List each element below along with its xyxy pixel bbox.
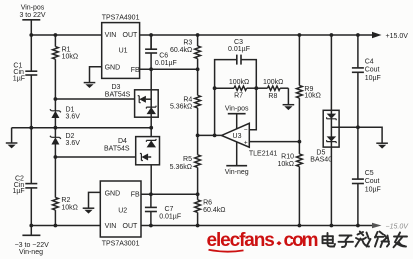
svg-text:R7: R7	[234, 92, 243, 99]
resistor R2	[53, 157, 78, 226]
diode D3 horizontal schottky	[138, 96, 152, 103]
svg-text:R1: R1	[62, 46, 71, 53]
watermark chinese 电子发烧友	[323, 232, 408, 248]
svg-text:5.36kΩ: 5.36kΩ	[170, 164, 192, 171]
wire U1 GND to ground	[90, 67, 102, 83]
node top rail junctions	[29, 33, 33, 37]
resistor R5	[170, 135, 201, 194]
svg-text:Cout: Cout	[365, 178, 380, 185]
node mid rail junctions	[29, 126, 33, 130]
svg-text:TPS7A3001: TPS7A3001	[102, 240, 140, 247]
svg-text:1µF: 1µF	[13, 188, 25, 195]
wire U1 FB to node	[140, 68, 198, 70]
svg-text:R2: R2	[61, 197, 70, 204]
svg-text:TLE2141: TLE2141	[249, 151, 278, 158]
node Vin-neg input bar	[15, 226, 50, 256]
svg-text:D4: D4	[118, 138, 127, 145]
wire noninverting input	[249, 141, 299, 143]
svg-text:elecfans: elecfans	[207, 230, 275, 251]
diode D4 horizontal schottky	[140, 154, 151, 161]
capacitor C2	[13, 128, 38, 226]
svg-text:GND: GND	[105, 65, 121, 72]
op-amp U1 regulator TPS7A4901	[102, 15, 140, 79]
svg-text:C3: C3	[234, 39, 243, 46]
capacitor C4	[352, 35, 381, 127]
svg-text:R8: R8	[268, 93, 277, 100]
svg-text:0.01µF: 0.01µF	[228, 46, 250, 53]
svg-text:D5: D5	[316, 150, 325, 157]
capacitor C5	[352, 127, 381, 225]
svg-text:D1: D1	[66, 107, 75, 114]
svg-text:VIN: VIN	[105, 223, 117, 230]
diode D4 vertical schottky	[146, 139, 156, 148]
node FB2 junctions	[149, 192, 153, 196]
svg-text:com: com	[284, 230, 318, 251]
op-amp U2 regulator TPS7A3001	[100, 181, 141, 247]
wire top rail VIN side	[31, 34, 101, 36]
svg-text:10kΩ: 10kΩ	[277, 161, 294, 168]
wire C1 branch	[30, 35, 32, 71]
resistor R6	[195, 194, 226, 225]
svg-text:−15.0V: −15.0V	[386, 223, 410, 230]
svg-text:R4: R4	[183, 96, 192, 103]
svg-text:10kΩ: 10kΩ	[61, 205, 78, 212]
svg-text:−3 to −22V: −3 to −22V	[15, 242, 50, 249]
wire opamp output	[198, 134, 222, 136]
wire node1 to D3	[55, 98, 139, 100]
ground U1	[84, 83, 96, 88]
node noninverting junction	[298, 140, 302, 144]
svg-text:D3: D3	[112, 84, 121, 91]
node Vin-pos input bar	[19, 5, 45, 20]
svg-text:U3: U3	[233, 133, 242, 140]
node D2 bottom	[54, 155, 58, 159]
svg-text:+: +	[244, 139, 248, 146]
svg-text:BAT54S: BAT54S	[104, 146, 130, 153]
resistor R8	[256, 79, 288, 100]
wire D5 mid to right	[331, 126, 358, 128]
capacitor C6	[145, 35, 177, 69]
node opamp output junctions	[196, 134, 200, 138]
wire right node to ground	[358, 127, 382, 143]
svg-text:0.01µF: 0.01µF	[159, 213, 181, 220]
diode D5 BAS40	[310, 110, 339, 163]
node R7 ends	[213, 86, 217, 90]
svg-text:3.6V: 3.6V	[66, 114, 81, 121]
svg-text:10µF: 10µF	[365, 75, 381, 82]
node FB1 junctions	[149, 67, 153, 71]
svg-text:100kΩ: 100kΩ	[263, 79, 283, 86]
resistor R9	[297, 35, 321, 142]
capacitor C3	[215, 39, 257, 88]
svg-text:Vin-pos: Vin-pos	[21, 5, 45, 12]
svg-text:C5: C5	[365, 170, 374, 177]
node D1 top	[54, 97, 58, 101]
resistor R10	[277, 142, 302, 226]
wire mid rail	[12, 127, 152, 129]
op-amp U3 TLE2141	[222, 123, 278, 157]
svg-text:10kΩ: 10kΩ	[62, 53, 79, 60]
wire U2 FB to node	[141, 193, 198, 195]
capacitor C7	[145, 194, 181, 225]
svg-text:Vin-neg: Vin-neg	[225, 169, 249, 176]
ground U2	[83, 208, 95, 213]
svg-text:10µF: 10µF	[365, 187, 381, 194]
svg-text:U1: U1	[119, 48, 128, 55]
wire U2 GND to ground	[89, 192, 101, 208]
svg-text:1µF: 1µF	[13, 76, 25, 83]
ground right	[376, 143, 388, 148]
wire bottom rail OUT side	[141, 225, 373, 227]
svg-text:Vin-pos: Vin-pos	[225, 105, 249, 112]
svg-text:BAT54S: BAT54S	[105, 91, 131, 98]
diode D5 lower schottky	[327, 136, 337, 143]
node +15.0V arrow	[372, 32, 408, 40]
svg-text:OUT: OUT	[123, 223, 139, 230]
svg-text:−: −	[244, 126, 248, 133]
svg-text:10kΩ: 10kΩ	[304, 93, 321, 100]
svg-text:U2: U2	[118, 208, 127, 215]
resistor R3	[170, 35, 201, 69]
diode D3 vertical schottky	[146, 106, 156, 115]
resistor R7	[215, 79, 257, 99]
wire C1 to mid rail	[30, 75, 32, 128]
svg-text:60.4kΩ: 60.4kΩ	[203, 207, 225, 214]
watermark elecfans.com	[207, 230, 318, 252]
svg-text:R5: R5	[183, 156, 192, 163]
svg-text:Vin-neg: Vin-neg	[19, 249, 43, 256]
svg-text:+15.0V: +15.0V	[386, 33, 409, 40]
svg-text:R10: R10	[281, 153, 294, 160]
svg-text:TPS7A4901: TPS7A4901	[102, 15, 140, 22]
svg-text:C4: C4	[365, 59, 374, 66]
diode D5 upper schottky	[327, 114, 337, 121]
svg-text:5.36kΩ: 5.36kΩ	[170, 103, 192, 110]
resistor R1	[53, 35, 79, 99]
svg-text:C6: C6	[159, 53, 168, 60]
wire Vin-pos stem	[30, 20, 32, 35]
svg-text:GND: GND	[105, 190, 121, 197]
svg-text:Cout: Cout	[365, 67, 380, 74]
diode D3 BAT54S	[105, 84, 158, 117]
node D5 mid right	[356, 125, 360, 129]
svg-text:BAS40: BAS40	[310, 157, 332, 164]
diode D2 zener 3.6V	[50, 128, 80, 157]
node Vin-pos opamp supply	[225, 105, 249, 129]
ground left	[6, 128, 18, 149]
wire node2 to D4	[55, 156, 141, 158]
diode D4 BAT54S	[104, 137, 160, 165]
wire vertical through D3 D4	[150, 35, 152, 49]
node bottom rail junctions	[29, 224, 33, 228]
wire bottom rail VIN side	[31, 225, 100, 227]
wire feedback vertical	[214, 88, 216, 135]
wire top rail OUT side to +15V	[140, 34, 373, 36]
svg-text:FB: FB	[131, 192, 140, 199]
svg-text:3.6V: 3.6V	[66, 140, 81, 147]
svg-text:0.01µF: 0.01µF	[155, 60, 177, 67]
svg-text:60.4kΩ: 60.4kΩ	[170, 47, 192, 54]
svg-text:C7: C7	[165, 206, 174, 213]
svg-text:OUT: OUT	[123, 32, 139, 39]
svg-text:100kΩ: 100kΩ	[229, 79, 249, 86]
svg-text:R3: R3	[183, 40, 192, 47]
svg-text:FB: FB	[131, 67, 140, 74]
wire inverting input	[249, 88, 256, 130]
svg-text:VIN: VIN	[105, 32, 117, 39]
ground R8	[283, 88, 295, 110]
svg-text:3 to 22V: 3 to 22V	[19, 12, 45, 19]
svg-text:D2: D2	[66, 133, 75, 140]
resistor R4	[170, 69, 201, 135]
diode D1 zener 3.6V	[50, 99, 80, 128]
node Vin-neg opamp supply	[225, 142, 249, 176]
capacitor C1	[13, 63, 38, 83]
node -15.0V arrow	[372, 223, 409, 231]
svg-text:R6: R6	[203, 200, 212, 207]
wire vertical through D5	[330, 35, 332, 226]
